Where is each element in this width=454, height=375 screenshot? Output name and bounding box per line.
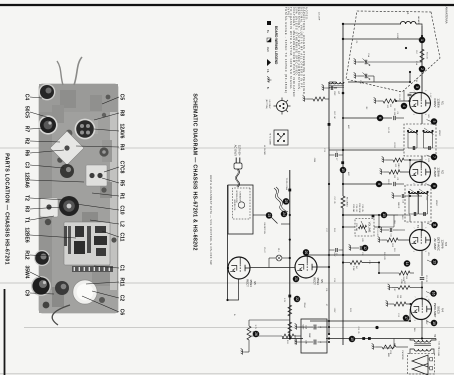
- resistor R4 3.3MEG: [350, 261, 362, 271]
- node test point 11: [431, 222, 438, 229]
- wire: bus stub below rail: [282, 338, 290, 340]
- svg-text:AVC: AVC: [347, 172, 350, 177]
- wire: T1 to V2 grid: [421, 156, 423, 162]
- photo callout labels (top row): [119, 94, 125, 316]
- svg-text:2: 2: [420, 68, 424, 70]
- svg-text:R2: R2: [24, 138, 30, 145]
- photo: tube 4: [34, 250, 50, 266]
- svg-text:C9A: C9A: [305, 325, 308, 330]
- svg-text:35W4 RECT: 35W4 RECT: [294, 335, 296, 346]
- svg-text:GRN: GRN: [313, 158, 315, 163]
- svg-text:2: 2: [413, 320, 415, 321]
- svg-text:50C5: 50C5: [24, 106, 30, 118]
- svg-text:HUM & ALIGNMENT DATA — VOL CON: HUM & ALIGNMENT DATA — VOL CONTROL & ON-…: [209, 175, 213, 265]
- phono motor (dashed): [233, 188, 251, 219]
- svg-text:C9B: C9B: [305, 340, 307, 345]
- svg-text:CONV: CONV: [433, 99, 437, 109]
- svg-text:SCHEMATIC DIAGRAM — CHASSIS: SCHEMATIC DIAGRAM — CHASSIS HS-67201 & H…: [192, 93, 198, 250]
- capacitor C12: [349, 244, 368, 256]
- svg-text:PWR AMP: PWR AMP: [433, 303, 437, 318]
- label tube V1: [433, 98, 444, 108]
- wire: V2 plate drop: [410, 195, 422, 197]
- resistor R12 filament dropping: [247, 320, 254, 352]
- test point leaders: [426, 120, 431, 324]
- capacitor C5 on AGC drop 2: [394, 177, 398, 186]
- svg-text:455KC: 455KC: [438, 130, 440, 137]
- svg-text:C10: C10: [402, 200, 404, 203]
- svg-text:16: 16: [431, 292, 435, 296]
- wire: AGC drop 1: [343, 117, 392, 119]
- page edge rule (left edge of original page): [0, 4, 454, 6]
- svg-text:C16 .05: C16 .05: [357, 326, 359, 334]
- B plus bus (vertical): [326, 338, 436, 340]
- svg-text:LOOP: LOOP: [396, 33, 398, 39]
- svg-text:2: 2: [412, 251, 414, 252]
- resistor R6 220K: [399, 271, 414, 282]
- filter choke box: [269, 130, 289, 145]
- svg-text:C3: C3: [24, 162, 30, 169]
- svg-text:455KC: 455KC: [435, 200, 437, 207]
- node test point 14: [404, 260, 411, 267]
- variable capacitor C1B (osc): [354, 72, 374, 84]
- svg-text:1: 1: [425, 296, 427, 297]
- IF transformer T2 (dashed can): [405, 185, 431, 229]
- node test point 6: [377, 115, 384, 122]
- svg-text:C1A: C1A: [367, 53, 370, 58]
- wire: volume bottom: [343, 226, 355, 228]
- photo: IF can round (4-hole): [75, 119, 96, 140]
- svg-text:C13 .02: C13 .02: [425, 275, 427, 283]
- label tube V3: [433, 237, 448, 252]
- node test point 3: [414, 84, 421, 91]
- svg-text:104V: 104V: [425, 320, 427, 325]
- svg-text:21: 21: [294, 277, 298, 281]
- wire: V3 cathode drop: [398, 239, 410, 241]
- capacitor C3: [408, 94, 415, 97]
- B minus rail: [328, 82, 330, 334]
- wire: T1 return to B minus: [329, 149, 343, 151]
- svg-text:PM SPKR: PM SPKR: [401, 350, 403, 360]
- node test point 25: [283, 198, 290, 205]
- svg-text:5: 5: [424, 183, 426, 184]
- wire: V4 cathode drop: [406, 303, 411, 305]
- wire: AGC drop 2: [343, 183, 392, 185]
- resistor R3: [389, 170, 400, 179]
- wire: B plus feed vertical: [310, 320, 410, 322]
- svg-text:C1: C1: [119, 265, 125, 272]
- svg-text:ON-OFF SW: ON-OFF SW: [263, 222, 265, 234]
- tube V6 filament section: [228, 257, 250, 279]
- svg-text:TO PH CONN: TO PH CONN: [285, 178, 287, 191]
- board wiring legend: [266, 21, 278, 89]
- label tube V6: [245, 279, 257, 287]
- node test point 20: [303, 249, 310, 256]
- svg-text:3: 3: [415, 86, 419, 88]
- svg-text:INTERLOCK: INTERLOCK: [235, 190, 237, 203]
- svg-text:12BE6: 12BE6: [24, 227, 30, 243]
- svg-text:C5: C5: [119, 94, 125, 101]
- wire junctions: [227, 35, 423, 340]
- voltage labels: [333, 93, 431, 325]
- svg-text:C11: C11: [119, 233, 125, 242]
- svg-text:R8: R8: [119, 110, 125, 117]
- svg-text:22: 22: [295, 297, 299, 301]
- svg-text:AC ONLY: AC ONLY: [234, 145, 238, 156]
- svg-text:C4 .02: C4 .02: [387, 127, 389, 134]
- svg-text:L1 LOOP: L1 LOOP: [318, 12, 320, 21]
- svg-text:T1: T1: [24, 217, 30, 223]
- svg-text:B-: B-: [266, 87, 270, 90]
- wire: audio coupling vertical: [310, 254, 400, 256]
- svg-text:AM ANT: AM ANT: [417, 16, 420, 24]
- svg-text:AM ANTENNA: AM ANTENNA: [445, 7, 449, 24]
- node test point 4: [401, 103, 408, 110]
- node test point 2: [419, 66, 426, 73]
- node bottom B+: [253, 324, 260, 337]
- wire: detector drop: [343, 214, 398, 216]
- ground at V3 cathode: [378, 236, 382, 242]
- svg-text:(BOTTOM): (BOTTOM): [265, 99, 267, 109]
- node test point 9: [431, 183, 438, 190]
- svg-text:BOARD WIRING LEGEND: BOARD WIRING LEGEND: [274, 26, 278, 65]
- svg-text:1: 1: [424, 227, 426, 228]
- node test point 19: [349, 336, 356, 343]
- svg-text:5: 5: [424, 114, 426, 115]
- svg-text:15: 15: [341, 168, 345, 172]
- svg-text:C1C: C1C: [415, 50, 417, 55]
- svg-text:4: 4: [402, 105, 406, 107]
- misc value labels 2: [233, 61, 440, 360]
- wire: R6 to AVC: [379, 272, 399, 274]
- svg-text:R17 1M: R17 1M: [333, 111, 335, 118]
- bottom edge dark mark: [4, 289, 6, 375]
- svg-text:R3 68: R3 68: [387, 179, 389, 185]
- fold crease 2: [0, 282, 454, 284]
- photo callout labels (bottom row): [24, 94, 30, 297]
- photo: tube can 2: [38, 115, 57, 134]
- tube V1 12BE6 converter: [410, 93, 431, 114]
- ground at V4 cathode: [386, 300, 390, 306]
- svg-text:7: 7: [432, 156, 436, 158]
- node on crease: [375, 326, 378, 329]
- wire: V2 cathode drop: [400, 171, 410, 173]
- svg-text:C7: C7: [335, 158, 337, 160]
- wire: coupling to V4 grid: [421, 281, 423, 299]
- AVC rail: [342, 24, 344, 196]
- svg-text:RECT: RECT: [245, 279, 249, 287]
- AM antenna loop (dashed): [346, 11, 440, 92]
- svg-text:R5 10MEG: R5 10MEG: [346, 197, 348, 207]
- node test point 12: [362, 245, 369, 252]
- output transformer T3: [414, 334, 436, 351]
- svg-text:7: 7: [412, 90, 414, 91]
- photo: extra mottle: [43, 90, 117, 308]
- svg-text:C6: C6: [119, 309, 125, 316]
- capacitor C11 at V3: [380, 226, 398, 236]
- interlock box: [228, 185, 253, 234]
- svg-text:35W4: 35W4: [303, 302, 305, 308]
- svg-text:-1.1V: -1.1V: [429, 93, 431, 98]
- svg-text:1: 1: [424, 90, 426, 91]
- ground at R9: [382, 156, 386, 162]
- svg-text:117V: 117V: [254, 324, 256, 329]
- tube V3 12AV6 det-AGC-AF: [410, 230, 431, 251]
- wire: osc cap to V1: [348, 72, 410, 82]
- svg-text:R12: R12: [24, 250, 30, 259]
- capacitor C7 between rails: [329, 153, 343, 160]
- svg-text:BLU: BLU: [413, 328, 415, 332]
- filament/power rail: [289, 170, 291, 339]
- resistor R9 100: [393, 158, 404, 168]
- svg-text:50MF: 50MF: [302, 325, 304, 331]
- svg-text:IF AMP: IF AMP: [433, 167, 437, 177]
- label tube V5: [312, 277, 324, 285]
- wire: det load drop: [362, 262, 379, 264]
- svg-text:10: 10: [382, 213, 386, 217]
- svg-text:C1B: C1B: [415, 78, 417, 83]
- photo: coil slug: [99, 147, 108, 156]
- node test point 17: [403, 315, 410, 322]
- svg-text:AVC: AVC: [266, 47, 270, 52]
- svg-text:L4 CHOKE: L4 CHOKE: [263, 145, 265, 156]
- svg-text:18: 18: [432, 321, 436, 325]
- ground at V2 cathode: [380, 168, 384, 174]
- svg-text:C11 100: C11 100: [376, 228, 378, 236]
- resistor R13 B+ dropping: [249, 334, 301, 345]
- svg-text:B+: B+: [266, 30, 270, 34]
- fold crease 3: [24, 327, 454, 329]
- svg-text:R1 22K: R1 22K: [393, 109, 395, 116]
- svg-text:T4 TO CONN: T4 TO CONN: [269, 133, 271, 145]
- tube V4 50C5 power amplifier: [411, 299, 432, 320]
- svg-text:26: 26: [254, 332, 258, 336]
- svg-text:C9: C9: [24, 290, 30, 297]
- svg-text:C17 .05: C17 .05: [333, 196, 335, 204]
- svg-text:25: 25: [284, 200, 288, 204]
- node test point 5: [431, 118, 438, 125]
- photo: dress wire: [52, 305, 70, 325]
- fold crease 1: [0, 147, 454, 149]
- wire: AVC feed: [378, 263, 380, 274]
- svg-text:7: 7: [412, 227, 414, 228]
- svg-text:117V 60~: 117V 60~: [238, 145, 242, 156]
- svg-text:3.3M: 3.3M: [352, 266, 354, 271]
- node test point 15: [340, 167, 347, 174]
- svg-text:1: 1: [424, 159, 426, 160]
- variable capacitor C1A (tuning): [354, 53, 422, 65]
- IF transformer T1 (dashed can): [404, 124, 436, 163]
- svg-text:C4: C4: [24, 94, 30, 101]
- misc value labels 3: [263, 33, 417, 357]
- oscillator coil L2: [329, 82, 344, 96]
- resistor R18 feedback: [376, 345, 408, 354]
- wire: T2 to V3: [421, 222, 423, 230]
- svg-text:RED: RED: [387, 353, 389, 358]
- wire: V2 plate to T2: [421, 183, 423, 186]
- svg-text:5: 5: [424, 251, 426, 252]
- tube pin numbers: [412, 90, 427, 320]
- notes block: [284, 7, 308, 97]
- svg-text:AF AMP: AF AMP: [433, 238, 437, 249]
- node test point 8: [376, 181, 383, 188]
- bottom rail: [227, 185, 229, 300]
- wire: V5 cathode to V6: [250, 267, 295, 269]
- svg-text:1ST IF: 1ST IF: [393, 142, 395, 149]
- svg-text:RECT: RECT: [312, 277, 316, 285]
- svg-text:C10: C10: [119, 205, 125, 214]
- svg-text:3.2 OHM: 3.2 OHM: [437, 348, 439, 356]
- svg-text:35W4: 35W4: [24, 265, 30, 278]
- node test point 13: [431, 259, 438, 266]
- tube V5 35W4 rectifier: [295, 256, 317, 278]
- interlock text: [235, 190, 242, 203]
- photo: electrolytic capacitor C6: [73, 280, 97, 304]
- svg-text:12AV6: 12AV6: [119, 124, 125, 139]
- node test point 21: [293, 276, 300, 283]
- svg-text:C2: C2: [119, 295, 125, 302]
- svg-text:R6: R6: [24, 150, 30, 157]
- photo: tube 5: [31, 276, 51, 296]
- wire: volume top: [374, 226, 379, 228]
- junction loop legs: [342, 23, 344, 25]
- wire: V3 plate to coupling: [421, 251, 423, 277]
- grounds under filter block: [299, 326, 313, 328]
- antenna coil L1: [400, 12, 420, 25]
- svg-text:INTERLOCK: INTERLOCK: [233, 200, 235, 212]
- photo: IF transformer diamond can: [50, 131, 84, 165]
- extra stub wires for density: [379, 90, 422, 348]
- svg-text:2ND IF: 2ND IF: [397, 202, 399, 209]
- svg-text:102V: 102V: [425, 196, 427, 201]
- svg-text:30MF: 30MF: [308, 333, 310, 339]
- svg-text:B-: B-: [233, 314, 235, 316]
- resistor R17 osc grid: [303, 95, 329, 101]
- photo: osc coil can: [60, 164, 74, 178]
- node test point 23: [266, 212, 273, 219]
- svg-text:9: 9: [432, 185, 436, 187]
- svg-text:L2: L2: [119, 221, 125, 227]
- svg-text:R11 47K: R11 47K: [383, 252, 385, 260]
- wire: bus to filament rail: [290, 338, 303, 340]
- svg-text:17: 17: [404, 316, 408, 320]
- node test point 7: [431, 154, 438, 161]
- junction on B minus rail: [328, 183, 330, 185]
- resistor R5 10MEG on AVC rail: [341, 196, 348, 208]
- photo: tube can 1: [39, 84, 56, 101]
- resistor R10: [387, 238, 398, 248]
- wire: coil top to grid line: [416, 24, 422, 26]
- svg-text:AVC: AVC: [347, 125, 350, 130]
- svg-text:L2 CONV: L2 CONV: [268, 100, 270, 109]
- wire/ground at V1 cathode: [378, 100, 383, 102]
- svg-text:C1A: C1A: [415, 61, 418, 66]
- svg-text:C7C8: C7C8: [119, 161, 125, 174]
- capacitor C4 on AGC drop: [394, 111, 398, 120]
- coupling capacitor C13: [420, 275, 427, 283]
- resistor R7 470K: [398, 279, 410, 289]
- svg-text:6.3V: 6.3V: [283, 298, 285, 303]
- svg-text:OSC: OSC: [333, 91, 335, 96]
- svg-text:C11: C11: [390, 234, 392, 237]
- wire: det diode feed: [398, 214, 410, 216]
- svg-text:7: 7: [413, 296, 415, 297]
- svg-text:6: 6: [378, 117, 382, 119]
- photo: antenna wire wisps: [74, 57, 82, 85]
- svg-text:C6 .05: C6 .05: [397, 165, 399, 172]
- svg-text:VOLUME: VOLUME: [368, 222, 371, 233]
- wire: T1 secondary drop: [343, 149, 404, 151]
- label tube V2: [433, 167, 444, 177]
- node test point 22: [294, 296, 301, 303]
- photo: tuning capacitor round: [59, 196, 79, 216]
- wire: V6 to bottom rail: [227, 267, 229, 269]
- component value block: [352, 203, 363, 213]
- svg-text:R16 220K: R16 220K: [358, 203, 360, 213]
- oscillator socket view: [265, 98, 291, 115]
- resistor R2 100: [383, 99, 396, 109]
- board wiring symbols: [288, 123, 374, 340]
- svg-text:121V: 121V: [333, 252, 335, 257]
- extra junction dots: [289, 81, 423, 343]
- twisted line cord: [274, 187, 288, 213]
- resistor R8 150: [394, 295, 406, 306]
- svg-text:8: 8: [377, 183, 381, 185]
- filter capacitor block C9A C9B: [301, 319, 327, 353]
- svg-text:11: 11: [432, 223, 436, 227]
- AC line plug: [234, 158, 242, 188]
- wire: filament return: [228, 279, 239, 300]
- svg-text:R7: R7: [24, 126, 30, 133]
- resistor R1 100: [420, 49, 428, 62]
- filament chain resistors on rail: [288, 305, 292, 333]
- wire: V1 cathode drop: [396, 100, 410, 102]
- svg-text:R11: R11: [119, 278, 125, 287]
- svg-text:PARTS LOCATION — CHASSIS HS-: PARTS LOCATION — CHASSIS HS-67201: [4, 153, 10, 265]
- svg-text:-52V: -52V: [427, 158, 429, 163]
- svg-text:R14 1M: R14 1M: [355, 223, 357, 231]
- node test point 18: [431, 320, 438, 327]
- photo: printed circuit board: [64, 222, 113, 272]
- volume control R14 (dashed): [355, 219, 374, 237]
- svg-text:2: 2: [412, 183, 414, 184]
- svg-text:C8: C8: [335, 253, 337, 255]
- svg-text:20: 20: [304, 251, 308, 255]
- svg-text:T2: T2: [24, 195, 30, 201]
- node test point 24: [281, 211, 288, 218]
- photo: IF can square: [86, 165, 107, 186]
- svg-text:C15 .05: C15 .05: [361, 204, 363, 212]
- capacitor C8 between rails: [329, 248, 343, 255]
- wire: R9 leads: [404, 159, 410, 161]
- svg-text:12BA6: 12BA6: [24, 172, 30, 188]
- svg-text:R15 1M: R15 1M: [352, 204, 354, 212]
- svg-text:470K: 470K: [400, 279, 402, 284]
- parts-location photo: chassis base: [39, 84, 118, 313]
- page right edge (faint): [0, 373, 454, 375]
- svg-text:PL 47: PL 47: [263, 247, 265, 253]
- svg-text:R1: R1: [119, 193, 125, 200]
- label tube V4: [433, 303, 444, 318]
- tube V2 12BA6 IF amplifier: [410, 162, 431, 183]
- svg-text:R1 100: R1 100: [426, 52, 428, 59]
- node test point 10: [381, 212, 388, 219]
- svg-text:FIL: FIL: [266, 69, 270, 73]
- svg-text:13: 13: [432, 260, 436, 264]
- wire: T3 connections: [410, 339, 436, 355]
- svg-text:12: 12: [363, 246, 367, 250]
- photo: white module: [40, 198, 58, 217]
- svg-text:19: 19: [350, 337, 354, 341]
